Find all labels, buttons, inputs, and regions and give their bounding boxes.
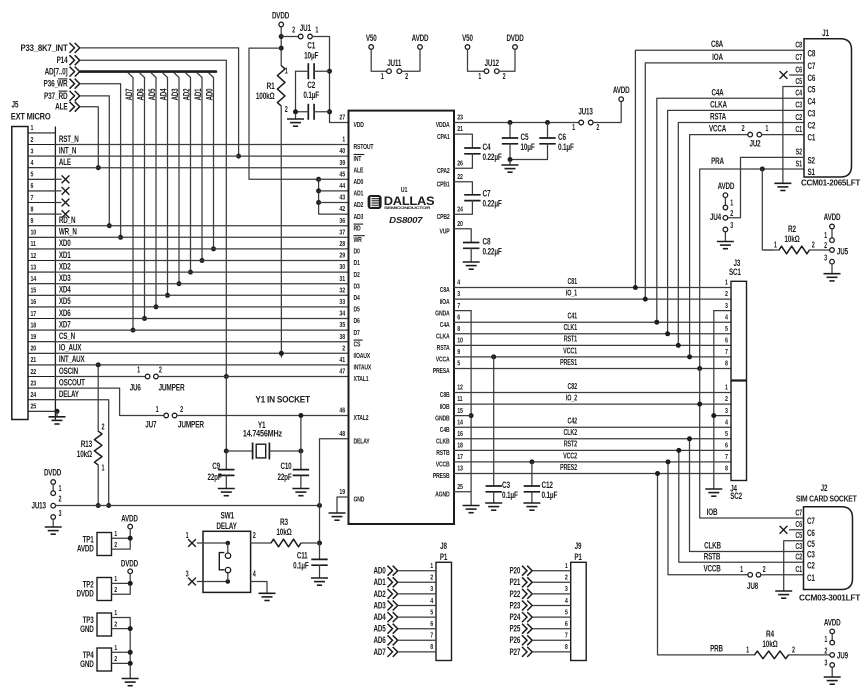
- J9 pin 1 P20: [510, 565, 571, 575]
- svg-text:5: 5: [457, 360, 460, 368]
- svg-text:WR_N: WR_N: [59, 226, 77, 236]
- svg-text:30: 30: [339, 263, 345, 271]
- wire net PRES2: [454, 473, 731, 475]
- junction TP1 node: [128, 536, 133, 541]
- svg-text:1: 1: [774, 242, 777, 250]
- resistor R3: [271, 517, 301, 547]
- label WR_N: [59, 226, 77, 236]
- junction AD5 junction XD5: [154, 304, 159, 309]
- jumper JU13 pin2: [588, 120, 593, 125]
- label AVDD: [412, 33, 429, 43]
- svg-text:AD2: AD2: [354, 201, 364, 209]
- junction IO_2 join: [697, 402, 702, 407]
- svg-text:2: 2: [824, 648, 827, 656]
- label 2: [763, 566, 766, 574]
- label AVDD: [824, 212, 841, 222]
- capacitor C1: [304, 40, 318, 79]
- svg-text:C5: C5: [808, 84, 816, 94]
- J9 pin 8 P27: [510, 647, 571, 657]
- label 1: [156, 406, 159, 414]
- svg-text:PRESA: PRESA: [433, 367, 450, 375]
- svg-text:2: 2: [31, 136, 34, 144]
- svg-text:AD1: AD1: [374, 577, 387, 587]
- wire net C8A up: [635, 50, 804, 287]
- wire P37_RD net: [81, 96, 110, 226]
- wire net XD6: [55, 318, 348, 320]
- svg-text:2: 2: [114, 655, 117, 663]
- svg-text:XD2: XD2: [59, 261, 71, 271]
- svg-text:40: 40: [339, 147, 345, 155]
- wire net ALE: [55, 167, 348, 169]
- label DELAY: [59, 389, 80, 399]
- jumper JU6 pin2: [154, 374, 159, 379]
- svg-text:RST_N: RST_N: [59, 134, 79, 144]
- svg-text:R4: R4: [766, 629, 775, 639]
- wire bus tap AD7 to XD7: [128, 73, 133, 331]
- wire R1 to IOAUX: [280, 106, 282, 357]
- wire AD1 wire: [319, 190, 349, 192]
- wire net PRA up: [699, 169, 701, 369]
- label J9: [575, 541, 582, 551]
- label 1: [315, 27, 318, 35]
- J9 pin 6 P25: [510, 623, 571, 633]
- junction R13 top: [96, 362, 101, 367]
- supply AVDD JU4: [723, 193, 728, 198]
- jumper JU4 pin2: [723, 216, 728, 221]
- label 1: [765, 125, 768, 133]
- svg-text:WR: WR: [354, 236, 363, 244]
- ground JU9: [824, 672, 841, 685]
- svg-text:C1: C1: [795, 566, 802, 574]
- svg-text:RSTOUT: RSTOUT: [354, 143, 374, 151]
- svg-text:JU6: JU6: [130, 383, 142, 393]
- svg-text:DVDD: DVDD: [272, 11, 290, 21]
- wire net CS_N: [55, 341, 348, 343]
- wire JU13 pin3 gnd: [52, 520, 54, 522]
- jumper JU7 pin2: [172, 413, 177, 418]
- J8 pin 1 AD0: [374, 565, 436, 575]
- svg-text:DVDD: DVDD: [506, 33, 524, 43]
- wire JU13 dvdd: [52, 485, 54, 491]
- wire net C41: [454, 321, 731, 323]
- label PRB: [710, 643, 723, 653]
- svg-text:14: 14: [31, 275, 37, 283]
- label AD2 vertical: [181, 89, 191, 101]
- wire net S2: [728, 157, 804, 217]
- svg-text:GND: GND: [80, 624, 94, 634]
- wire net OSCOUT: [55, 388, 163, 415]
- svg-text:AD3: AD3: [354, 213, 364, 221]
- label DELAY: [216, 521, 237, 531]
- wire net C81: [454, 287, 731, 289]
- label JU13: [578, 106, 593, 116]
- label AD0 vertical: [204, 89, 214, 101]
- svg-text:36: 36: [339, 217, 345, 225]
- junction AD1 tie: [316, 188, 321, 193]
- label 1: [824, 636, 827, 644]
- svg-text:OSCIN: OSCIN: [59, 366, 79, 376]
- supply DVDD JU13: [51, 480, 56, 485]
- label C4A: [711, 87, 724, 97]
- junction crystal right node: [298, 449, 303, 454]
- svg-text:17: 17: [31, 310, 37, 318]
- wire R4 to JU9: [789, 654, 830, 656]
- wire DELAY to IC pin48: [320, 439, 349, 506]
- svg-text:9: 9: [31, 217, 34, 225]
- connector J3/J4 SC1 SC2: [725, 279, 746, 481]
- wire DELAY rail: [56, 505, 320, 507]
- svg-text:ALE: ALE: [59, 157, 71, 167]
- svg-text:3: 3: [725, 302, 728, 310]
- svg-text:C6: C6: [808, 73, 816, 83]
- svg-text:9: 9: [457, 348, 460, 356]
- label XD5: [59, 296, 71, 306]
- svg-text:5: 5: [725, 325, 728, 333]
- wire net J4 pin3 gnd stub: [714, 415, 731, 417]
- svg-text:1: 1: [565, 562, 568, 570]
- svg-text:2: 2: [565, 574, 568, 582]
- svg-text:C6: C6: [558, 132, 567, 142]
- ground JU13 pin3: [45, 522, 62, 535]
- svg-text:10µF: 10µF: [304, 50, 318, 60]
- svg-text:6: 6: [31, 182, 34, 190]
- connector J2 SIM CARD SOCKET: [804, 507, 853, 590]
- svg-text:DVDD: DVDD: [121, 558, 139, 568]
- wire C4 loop top: [454, 134, 472, 148]
- svg-text:23: 23: [31, 380, 37, 388]
- svg-text:25: 25: [31, 403, 37, 411]
- wire JU1 left: [281, 36, 298, 38]
- svg-text:8: 8: [725, 465, 728, 473]
- wire net XD0: [55, 248, 348, 250]
- label 2: [405, 73, 408, 81]
- label JU4: [710, 212, 722, 222]
- svg-text:2: 2: [824, 242, 827, 250]
- label JU12: [485, 58, 499, 68]
- label 1: [137, 367, 140, 375]
- wire net CLKA up: [668, 110, 804, 333]
- wire net XTAL1: [158, 376, 348, 378]
- U1 left pin labels: [339, 114, 373, 504]
- junction J4 pin3 gnd join: [711, 413, 716, 418]
- svg-text:CLK1: CLK1: [563, 324, 577, 332]
- junction TP3 node a: [128, 626, 133, 631]
- wire net VCCB down: [668, 462, 748, 575]
- junction C5 gnd node: [508, 157, 513, 162]
- svg-text:10kΩ: 10kΩ: [784, 234, 800, 244]
- wire net IO_AUX: [55, 352, 348, 354]
- label 1: [59, 485, 62, 493]
- wire net RST1: [454, 344, 731, 346]
- svg-text:P37_: P37_: [44, 91, 59, 101]
- svg-text:7: 7: [457, 302, 460, 310]
- label J5: [12, 99, 19, 109]
- svg-text:VDD: VDD: [354, 121, 365, 129]
- wire JU9 pin3 gnd: [831, 668, 833, 672]
- svg-text:D6: D6: [354, 317, 361, 325]
- capacitor C2: [303, 80, 319, 120]
- svg-text:12: 12: [31, 252, 37, 260]
- svg-text:VCC2: VCC2: [563, 452, 577, 460]
- svg-text:6: 6: [725, 337, 728, 345]
- svg-text:C2: C2: [795, 554, 802, 562]
- svg-text:C4A: C4A: [440, 321, 450, 329]
- svg-text:0.1µF: 0.1µF: [542, 490, 558, 500]
- svg-text:1: 1: [746, 647, 749, 655]
- svg-text:R3: R3: [280, 517, 289, 527]
- wire C10 stem: [300, 451, 302, 470]
- label XD6: [59, 308, 71, 318]
- no-connect J2 C6: [780, 526, 788, 534]
- capacitor C9: [218, 470, 234, 476]
- wire net PRB down: [658, 474, 755, 655]
- label C1: [795, 126, 802, 134]
- wire JU12 left: [468, 50, 485, 72]
- label CLKA: [710, 99, 727, 109]
- svg-text:11: 11: [31, 240, 37, 248]
- svg-text:C7: C7: [795, 54, 802, 62]
- svg-text:1: 1: [114, 609, 117, 617]
- svg-text:20: 20: [457, 220, 463, 228]
- svg-text:0.1µF: 0.1µF: [293, 560, 309, 570]
- label JU8: [747, 581, 759, 591]
- label XD2: [59, 261, 71, 271]
- svg-text:AD1: AD1: [354, 190, 364, 198]
- wire net PRES1: [454, 368, 731, 370]
- svg-text:AD5: AD5: [374, 623, 387, 633]
- junction AD2 tie: [316, 200, 321, 205]
- label 1: [824, 232, 827, 240]
- wire P36_WR net: [81, 84, 121, 238]
- label C5: [795, 78, 802, 86]
- junction TP2 node: [128, 581, 133, 586]
- testpoint TP4: [80, 644, 130, 671]
- wire R13 top wire: [97, 365, 99, 431]
- svg-text:I/OB: I/OB: [440, 403, 450, 411]
- svg-text:C7: C7: [795, 510, 802, 518]
- label VCCA: [709, 123, 727, 133]
- svg-text:JU13: JU13: [578, 106, 593, 116]
- wire bus tap AD2 to XD2: [185, 73, 190, 273]
- label P1: [574, 552, 582, 562]
- wire J5 pin 6 stub: [55, 190, 61, 192]
- svg-text:14: 14: [457, 419, 463, 427]
- svg-text:1: 1: [114, 575, 117, 583]
- junction AD3 junction XD3: [177, 281, 182, 286]
- svg-text:1: 1: [59, 485, 62, 493]
- junction P14 to OSCIN/XTAL1: [224, 374, 229, 379]
- svg-text:XTAL1: XTAL1: [354, 375, 369, 383]
- junction VCCB join: [666, 459, 671, 464]
- capacitor C4: [464, 142, 502, 162]
- supply AVDD ju13: [619, 97, 624, 102]
- svg-text:AVDD: AVDD: [824, 212, 841, 222]
- svg-text:SEMICONDUCTOR: SEMICONDUCTOR: [384, 206, 431, 210]
- jumper JU7 pin1: [164, 413, 169, 418]
- svg-text:P33_8K7_INT: P33_8K7_INT: [21, 43, 68, 53]
- label XD3: [59, 273, 71, 283]
- wire XTAL1 to crystal: [225, 377, 227, 452]
- junction RSTA join: [676, 343, 681, 348]
- ground SW1 pin4: [259, 588, 276, 601]
- svg-text:C1: C1: [307, 40, 316, 50]
- input port P36_WR: [44, 78, 80, 88]
- svg-text:0.1µF: 0.1µF: [303, 90, 319, 100]
- svg-text:AD6: AD6: [135, 89, 145, 101]
- J9 pin 5 P24: [510, 612, 571, 622]
- ground C10: [292, 483, 309, 496]
- resistor R13: [77, 424, 105, 473]
- label IO_AUX: [59, 342, 82, 352]
- svg-text:AD1: AD1: [193, 89, 203, 101]
- svg-text:25: 25: [457, 483, 463, 491]
- junction P36 to WR_N: [118, 235, 123, 240]
- svg-text:2: 2: [59, 496, 62, 504]
- label JUMPER: [159, 383, 185, 393]
- svg-text:1: 1: [824, 232, 827, 240]
- svg-text:C3: C3: [808, 108, 816, 118]
- svg-text:2: 2: [342, 345, 345, 353]
- wire net RSTA up: [678, 123, 804, 346]
- label C2: [795, 114, 802, 122]
- wire JU11 left: [371, 50, 386, 72]
- ground C11: [311, 573, 328, 586]
- label CCM03-3001LFT: [799, 595, 861, 603]
- svg-text:CLKB: CLKB: [436, 438, 450, 446]
- wire net S1 PRA: [700, 168, 804, 170]
- svg-text:SC1: SC1: [729, 267, 741, 277]
- wire net VCC2: [454, 461, 731, 463]
- svg-text:AD7: AD7: [124, 89, 134, 101]
- wire J5 pin 8 stub: [55, 213, 61, 215]
- svg-text:XTAL2: XTAL2: [354, 414, 369, 422]
- svg-text:AD2: AD2: [181, 89, 191, 101]
- label 3: [59, 510, 62, 518]
- wire TP1 tie: [129, 529, 131, 549]
- svg-text:JU9: JU9: [837, 650, 849, 660]
- no-connect J5 pin 6: [62, 187, 70, 195]
- wire net DELAY j5: [55, 400, 108, 506]
- wire net IO_2 IOB down: [700, 369, 804, 519]
- svg-text:JU2: JU2: [749, 138, 760, 148]
- svg-text:JU12: JU12: [485, 58, 499, 68]
- svg-text:P36_: P36_: [44, 78, 59, 88]
- wire net OSCIN: [55, 376, 145, 378]
- junction CLKA join: [665, 331, 670, 336]
- svg-text:AD6: AD6: [374, 635, 387, 645]
- no-connect J5 pin 8: [62, 210, 70, 218]
- svg-text:VCCA: VCCA: [709, 123, 727, 133]
- no-connect SW1 pin3: [188, 578, 196, 586]
- label JU11: [387, 58, 402, 68]
- svg-text:2: 2: [763, 566, 766, 574]
- resistor R2: [774, 224, 815, 254]
- svg-text:P21: P21: [510, 577, 521, 587]
- svg-text:SW1: SW1: [220, 510, 234, 520]
- svg-text:3: 3: [565, 585, 568, 593]
- input port P14: [57, 55, 80, 65]
- wire C12 stem: [531, 462, 533, 486]
- svg-text:19: 19: [31, 333, 37, 341]
- label DVDD: [44, 467, 62, 477]
- svg-text:C10: C10: [280, 461, 291, 471]
- svg-text:C4: C4: [483, 142, 492, 152]
- wire C2 left: [296, 111, 309, 113]
- label JUMPER: [178, 420, 204, 430]
- svg-text:2: 2: [725, 290, 728, 298]
- svg-text:INT_N: INT_N: [59, 145, 77, 155]
- svg-text:4: 4: [565, 597, 568, 605]
- svg-text:37: 37: [339, 229, 345, 237]
- svg-text:15: 15: [31, 287, 37, 295]
- label RSTA: [710, 111, 726, 121]
- junction DVDD node b: [279, 46, 284, 51]
- junction XTAL2 tap: [298, 413, 303, 418]
- junction TP4 node a: [128, 650, 133, 655]
- label RST2: [564, 441, 578, 449]
- label DVDD: [272, 11, 290, 21]
- svg-text:12: 12: [457, 384, 463, 392]
- ground C3: [485, 498, 502, 511]
- svg-text:J8: J8: [440, 541, 447, 551]
- label C5: [795, 532, 802, 540]
- svg-text:C8B: C8B: [440, 391, 450, 399]
- wire net XD2: [55, 271, 348, 273]
- svg-text:C5: C5: [521, 132, 530, 142]
- wire net GND pin19: [337, 497, 349, 508]
- wire net XD3: [55, 283, 348, 285]
- svg-text:2: 2: [253, 532, 256, 540]
- svg-text:RST1: RST1: [564, 336, 578, 344]
- wire bus tap AD5 to XD5: [151, 73, 156, 307]
- svg-text:P26: P26: [510, 635, 521, 645]
- svg-text:AVDD: AVDD: [718, 181, 735, 191]
- resistor R4: [746, 629, 795, 659]
- wire AGND down: [470, 492, 472, 500]
- capacitor C8: [463, 236, 502, 256]
- svg-text:4: 4: [253, 571, 256, 579]
- label C81: [568, 278, 578, 286]
- svg-text:S2: S2: [808, 155, 815, 165]
- no-connect SW1 pin1: [188, 539, 196, 547]
- svg-text:C7: C7: [808, 61, 816, 71]
- junction GNDB join: [469, 413, 474, 418]
- svg-text:32: 32: [339, 287, 345, 295]
- wire J1 C6 stub: [790, 74, 805, 76]
- label J1: [822, 28, 829, 38]
- svg-text:PRA: PRA: [711, 156, 724, 166]
- wire net GNDA down: [454, 311, 471, 492]
- svg-text:CLKA: CLKA: [710, 99, 727, 109]
- wire C11 bottom: [319, 565, 321, 572]
- svg-text:2: 2: [102, 424, 105, 432]
- svg-text:J9: J9: [575, 541, 582, 551]
- label AVDD: [121, 513, 138, 523]
- svg-text:3: 3: [725, 407, 728, 415]
- svg-text:Y1 IN SOCKET: Y1 IN SOCKET: [255, 394, 310, 404]
- svg-text:8: 8: [457, 325, 460, 333]
- label 2: [292, 27, 295, 35]
- junction R1 to IOAUX dot: [279, 351, 284, 356]
- svg-text:46: 46: [339, 407, 345, 415]
- wire J5 pin25 to gnd: [55, 410, 57, 412]
- svg-text:P1: P1: [574, 552, 582, 562]
- wire TP2 tie: [129, 574, 131, 594]
- wire net INT_N: [55, 155, 348, 157]
- label V50: [462, 33, 473, 43]
- junction RSTB join: [676, 448, 681, 453]
- wire JU8 to J2 C1: [761, 574, 804, 576]
